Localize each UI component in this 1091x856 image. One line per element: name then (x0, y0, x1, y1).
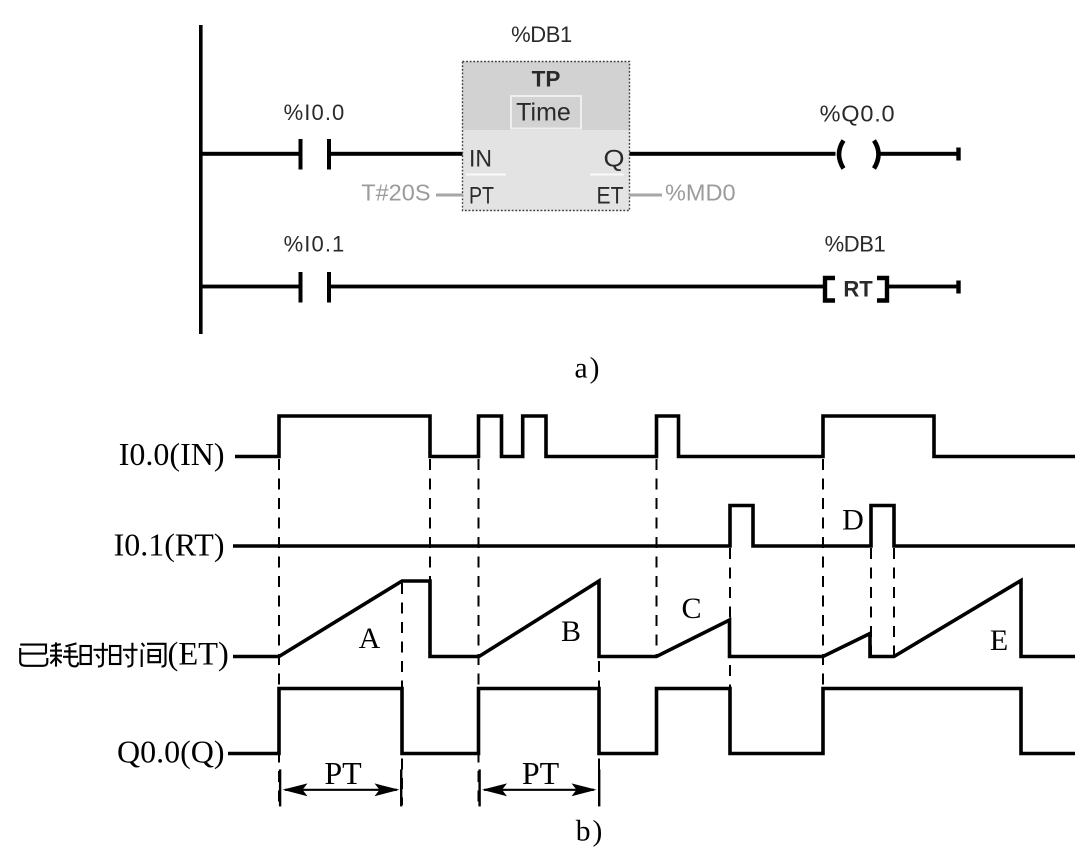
svg-text:D: D (842, 504, 864, 537)
PT measure tick left 1 (279, 769, 281, 806)
waveform Q0.0(Q) trace (228, 689, 1075, 754)
reset coil [ RT ] (825, 277, 887, 302)
dashed guide line at second RT pulse rise (870, 548, 872, 655)
svg-text:B: B (561, 615, 581, 648)
pin separator under Q (590, 174, 624, 176)
svg-text:%DB1: %DB1 (511, 22, 572, 47)
char 时 (1) (81, 643, 109, 667)
wire contact %I0.0 to timer IN pin (331, 152, 463, 156)
svg-text:TP: TP (532, 67, 561, 92)
svg-text:A: A (359, 622, 381, 655)
label %I0.0 (284, 100, 346, 125)
svg-text:IN: IN (469, 146, 492, 173)
pin Q (604, 146, 625, 173)
svg-text:E: E (990, 624, 1008, 657)
svg-text:b): b) (576, 816, 605, 848)
dashed guide line at fifth IN rising edge (822, 459, 824, 687)
label %I0.1 (284, 232, 346, 257)
dashed guide line at second IN rising edge (478, 459, 480, 805)
dashed guide line at second RT pulse fall (893, 548, 895, 655)
dashed guide line at first PT elapsed (401, 583, 403, 805)
svg-text:%I0.0: %I0.0 (284, 100, 346, 125)
contact %I0.0 (299, 139, 332, 170)
label %Q0.0 (820, 101, 896, 127)
label C (681, 592, 701, 625)
waveform I0.0(IN) trace (235, 416, 1075, 457)
PT measure tick right 1 (400, 769, 402, 806)
label Q0.0(Q) (117, 734, 225, 770)
svg-text:PT: PT (469, 183, 494, 210)
svg-text:(ET): (ET) (168, 637, 229, 673)
label E (990, 624, 1008, 657)
reset coil instance label %DB1 (825, 232, 886, 257)
pin IN (469, 146, 492, 173)
label PT 2 (522, 755, 560, 791)
pin ET (597, 183, 624, 210)
pin separator under IN (466, 174, 506, 176)
svg-text:T#20S: T#20S (361, 180, 430, 206)
svg-text:Time: Time (516, 99, 571, 127)
wire reset coil to rung2 end (889, 285, 958, 289)
svg-text:%I0.1: %I0.1 (284, 232, 346, 257)
timer data type box Time (511, 96, 581, 129)
waveform I0.1(RT) trace (233, 506, 1075, 547)
coil %Q0.0 (839, 141, 879, 169)
label (ET) (168, 637, 229, 673)
waveform ET trace (233, 581, 1075, 657)
PT arrow 1 (283, 783, 400, 796)
contact %I0.1 (299, 272, 332, 303)
PT arrow 2 (482, 783, 597, 796)
svg-text:PT: PT (522, 755, 560, 791)
wire contact %I0.1 to reset coil RT (331, 285, 823, 289)
svg-text:Q0.0(Q): Q0.0(Q) (117, 734, 225, 770)
PT measure tick right 2 (598, 769, 600, 806)
value T#20S (361, 180, 430, 206)
dashed guide line at second PT elapsed (598, 583, 600, 805)
rung2 end terminal tick (956, 281, 960, 294)
wire rung2 rail to contact %I0.1 (201, 285, 299, 289)
wire ET pin to %MD0 (629, 194, 662, 197)
svg-text:I0.1(RT): I0.1(RT) (114, 527, 225, 563)
label I0.0(IN) (119, 436, 225, 472)
svg-text:I0.0(IN): I0.0(IN) (119, 436, 225, 472)
label I0.1(RT) (114, 527, 225, 563)
timer type label TP (532, 67, 561, 92)
char 已 (20, 645, 47, 666)
svg-text:PT: PT (324, 755, 362, 791)
svg-text:%Q0.0: %Q0.0 (820, 101, 896, 127)
timer block U1 (TP) body (463, 62, 630, 211)
label 已耗时时间(ET) chinese chars drawn as strokes (20, 642, 165, 667)
svg-text:%MD0: %MD0 (665, 180, 736, 206)
dashed guide line at first IN rising edge (278, 459, 280, 805)
label D (842, 504, 864, 537)
caption a) (575, 353, 602, 385)
svg-text:RT: RT (843, 277, 873, 302)
left power rail (199, 25, 203, 334)
PT measure tick left 2 (478, 769, 480, 806)
wire rung1 rail to contact %I0.0 (201, 152, 299, 156)
dashed guide line at first RT pulse (729, 548, 731, 687)
svg-text:a): a) (575, 353, 602, 385)
svg-text:%DB1: %DB1 (825, 232, 886, 257)
caption b) (576, 816, 605, 848)
label B (561, 615, 581, 648)
dashed guide line at fourth IN rising edge (656, 459, 658, 655)
label %MD0 (665, 180, 736, 206)
wire coil %Q0.0 to rung1 end (880, 152, 958, 156)
svg-text:ET: ET (597, 183, 624, 210)
pin PT (469, 183, 494, 210)
char 耗 (50, 642, 78, 666)
wire timer Q pin to coil %Q0.0 (630, 152, 836, 156)
label PT 1 (324, 755, 362, 791)
rung1 end terminal tick (956, 148, 960, 161)
svg-text:Q: Q (604, 146, 625, 173)
label A (359, 622, 381, 655)
char 间 (142, 643, 166, 667)
dashed guide line at first IN falling edge (429, 459, 431, 581)
char 时 (2) (110, 643, 138, 667)
wire value T#20S to PT pin (436, 194, 463, 197)
svg-text:C: C (681, 592, 701, 625)
timer instance label %DB1 (511, 22, 572, 47)
